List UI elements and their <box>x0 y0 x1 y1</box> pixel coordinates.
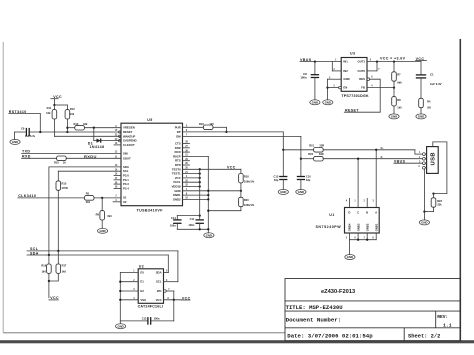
USB pin 2 (DM) <box>423 157 427 160</box>
svg-text:X2: X2 <box>123 200 127 204</box>
resistor R17 <box>48 251 67 282</box>
resistor R4 <box>419 98 431 114</box>
svg-text:IN2: IN2 <box>343 69 348 73</box>
ground (C13) <box>278 189 288 194</box>
resistor R23 <box>431 194 442 212</box>
regulator U3 TPS77301DGK <box>341 52 369 98</box>
wire DM <box>183 136 303 176</box>
EEPROM U2 CAT24FC16LI <box>138 265 164 309</box>
wire GND row to divider <box>183 190 243 192</box>
diode D1 1N4148 <box>88 139 121 150</box>
resistor R16 <box>183 122 228 133</box>
ground (C9) <box>10 132 20 144</box>
USB pin numbers <box>418 152 421 168</box>
ground (R8) <box>389 114 399 119</box>
U5 left pin names <box>123 126 137 204</box>
node TXD <box>22 149 121 153</box>
svg-text:Date: 3/07/2006 02:01:54p: Date: 3/07/2006 02:01:54p <box>287 333 373 340</box>
svg-text:A: A <box>375 210 377 214</box>
svg-text:E0: E0 <box>140 271 144 275</box>
U3 pin numbers <box>329 60 380 88</box>
wire GND1 <box>183 194 210 196</box>
svg-text:SCL: SCL <box>156 280 162 284</box>
U5 short stubs right <box>183 144 190 166</box>
svg-text:Sheet: 2/2: Sheet: 2/2 <box>408 334 440 340</box>
node VCC (U2) <box>182 296 191 300</box>
svg-text:R15: R15 <box>62 181 67 185</box>
svg-text:R8: R8 <box>397 98 401 102</box>
svg-text:C9: C9 <box>21 126 25 130</box>
capacitor C13 <box>274 174 288 189</box>
ground (U2 bus) <box>116 321 126 329</box>
wire OUT2 tie <box>367 62 377 71</box>
svg-text:eZ430-F2013: eZ430-F2013 <box>321 289 355 295</box>
svg-text:GND: GND <box>206 233 212 237</box>
resistor R21 <box>283 143 415 152</box>
wire U3 GND pin <box>326 79 341 100</box>
resistor R8 <box>392 88 402 114</box>
svg-text:GND2: GND2 <box>173 197 181 201</box>
svg-text:USB: USB <box>431 152 437 165</box>
svg-text:R4: R4 <box>427 99 431 103</box>
svg-text:VSS: VSS <box>140 298 146 302</box>
wire SCL to U2 <box>164 251 178 282</box>
svg-text:E2: E2 <box>140 289 144 293</box>
wire WAKEUP net <box>54 135 121 137</box>
capacitor C12 <box>120 317 174 325</box>
USB connector <box>427 147 439 174</box>
svg-text:R18: R18 <box>244 174 249 178</box>
U3 RES bubble and RESET net <box>344 78 380 112</box>
capacitor C1 <box>416 62 442 99</box>
U4 top pin numbers <box>346 200 375 203</box>
resistor R9 <box>96 197 113 229</box>
capacitor C10 <box>297 174 311 189</box>
svg-text:B: B <box>366 210 368 214</box>
svg-text:OUT2: OUT2 <box>358 69 366 73</box>
svg-text:GND3: GND3 <box>356 223 360 231</box>
svg-text:U2: U2 <box>139 265 144 269</box>
svg-text:DP: DP <box>177 130 181 134</box>
U2 left bus wires <box>119 273 138 321</box>
wire <box>39 114 41 132</box>
wire to ground (USB) <box>423 210 433 220</box>
svg-text:10k: 10k <box>70 112 75 116</box>
svg-text:R5: R5 <box>86 192 90 196</box>
svg-text:CLKOUT: CLKOUT <box>123 143 135 147</box>
U4 stub pin D <box>348 198 350 207</box>
title block <box>285 279 460 341</box>
svg-text:3k3: 3k3 <box>107 214 112 218</box>
wire DP to U4 pin A <box>375 149 377 208</box>
svg-text:GND: GND <box>418 115 424 119</box>
svg-text:C11: C11 <box>190 217 195 221</box>
svg-text:C1: C1 <box>430 72 434 76</box>
U3 EN bubble and wire <box>328 86 342 89</box>
svg-text:VBUS: VBUS <box>394 159 406 163</box>
ground (U3) <box>323 100 333 105</box>
U1 GND pin names rotated <box>348 223 379 231</box>
svg-text:VCC: VCC <box>156 298 162 302</box>
VCC label bottom left <box>49 296 59 300</box>
U2 pin names <box>140 271 161 302</box>
U3 pin names <box>343 60 365 90</box>
svg-text:1.1: 1.1 <box>443 323 452 329</box>
wire IN2 tie <box>332 62 341 71</box>
node SDA <box>27 251 168 256</box>
wire TEST1 <box>183 172 201 174</box>
svg-text:VCC: VCC <box>227 166 236 170</box>
svg-text:TXD: TXD <box>22 149 30 153</box>
svg-text:PUR: PUR <box>175 125 181 129</box>
svg-text:GND: GND <box>12 140 18 144</box>
svg-text:C13: C13 <box>274 174 279 178</box>
svg-text:C: C <box>357 210 359 214</box>
capacitor C8 <box>300 62 319 100</box>
svg-text:1k0: 1k0 <box>41 269 46 273</box>
svg-text:GND: GND <box>421 221 427 225</box>
U5 short stubs left <box>113 145 121 202</box>
svg-text:C14: C14 <box>171 216 176 220</box>
wire vertical to bypass caps <box>199 169 201 216</box>
svg-text:GND2: GND2 <box>365 223 369 231</box>
svg-text:100n: 100n <box>170 224 176 228</box>
svg-text:C12: C12 <box>142 317 147 321</box>
wire U2 VCC <box>164 299 182 321</box>
svg-text:100n: 100n <box>188 223 194 227</box>
wire VDD18 pin <box>183 185 201 187</box>
wire SDA from U5 <box>49 167 121 255</box>
svg-text:D: D <box>348 210 350 214</box>
svg-text:RESET: RESET <box>345 108 359 112</box>
svg-text:33k: 33k <box>83 122 88 126</box>
svg-text:R7: R7 <box>397 72 401 76</box>
ground (C8) <box>310 100 320 105</box>
resistor R11 <box>46 105 57 136</box>
U1 pin letters <box>348 210 377 214</box>
resistor R22 <box>301 152 423 161</box>
svg-text:WC: WC <box>157 289 162 293</box>
svg-text:100k/1%: 100k/1% <box>244 179 255 183</box>
wire RESET net <box>30 131 121 133</box>
wire DP <box>183 132 285 177</box>
resistor R13 <box>66 122 121 130</box>
svg-text:1uF,6.3v: 1uF,6.3v <box>25 134 36 138</box>
svg-text:TPS77301DGK: TPS77301DGK <box>341 94 369 98</box>
resistor R5 <box>84 192 121 204</box>
svg-text:RES: RES <box>359 77 365 81</box>
svg-text:1k5: 1k5 <box>209 122 214 126</box>
svg-text:33R: 33R <box>319 143 324 147</box>
U1 bottom stubs and bus <box>346 233 376 241</box>
node VCC (C1) <box>416 57 427 61</box>
USB pin 4 GND <box>423 166 427 211</box>
svg-text:470R: 470R <box>62 186 68 190</box>
resistor R19 <box>41 255 51 298</box>
svg-text:R16: R16 <box>199 122 204 126</box>
U2 WC bubble wire <box>164 290 174 300</box>
svg-text:FB: FB <box>361 86 365 90</box>
svg-text:GND: GND <box>117 324 123 328</box>
title block text <box>286 289 452 340</box>
wire DP step into USB pin 1 <box>415 150 427 156</box>
resistor R10 <box>54 154 121 165</box>
svg-text:GND1: GND1 <box>374 223 378 231</box>
wire VCC output rail <box>367 57 421 63</box>
svg-text:10k: 10k <box>46 111 51 115</box>
svg-text:33k: 33k <box>437 203 442 207</box>
node CLK3410 <box>18 194 85 198</box>
ground (R4) <box>416 114 426 119</box>
IC U1 SN75240PW <box>315 208 379 234</box>
U5 pin bubbles RESET WAKEUP SUSPEND <box>119 131 121 142</box>
wire VCC rail TEST0 <box>183 166 241 171</box>
node RXD <box>22 154 57 158</box>
svg-text:R10: R10 <box>54 161 59 165</box>
svg-text:R9: R9 <box>96 213 100 217</box>
wire cap bottom bus <box>177 228 209 230</box>
svg-text:R17: R17 <box>62 264 67 268</box>
resistor R7 <box>392 62 402 88</box>
svg-text:100n: 100n <box>154 317 160 321</box>
ground (USB) <box>419 220 429 225</box>
svg-text:SOUT: SOUT <box>123 156 131 160</box>
svg-text:DM: DM <box>176 134 181 138</box>
capacitor C9 <box>15 126 36 137</box>
wire SCL from U5 <box>58 171 121 181</box>
svg-text:9k6: 9k6 <box>397 80 402 84</box>
svg-text:IN1: IN1 <box>343 60 348 64</box>
svg-text:EN: EN <box>343 86 347 90</box>
wire RI/CP to GND rail <box>183 156 209 233</box>
svg-text:1uF 6.3V: 1uF 6.3V <box>430 82 442 86</box>
svg-text:R22: R22 <box>308 152 313 156</box>
ground (R9) <box>98 228 108 233</box>
svg-text:R21: R21 <box>309 143 314 147</box>
node VBUS (USB) <box>394 159 427 164</box>
svg-text:RXD: RXD <box>22 154 31 158</box>
svg-text:R19: R19 <box>41 264 46 268</box>
svg-text:R11: R11 <box>47 106 52 110</box>
VCC symbol top left <box>51 95 68 106</box>
wire VCC1 pin <box>183 181 201 183</box>
svg-text:TUSB3410VF: TUSB3410VF <box>137 208 164 212</box>
svg-text:SIN: SIN <box>123 152 128 156</box>
capacitor C14 <box>170 216 200 230</box>
svg-text:GND: GND <box>343 77 349 81</box>
resistor R15 <box>56 181 68 251</box>
svg-text:GND: GND <box>312 100 318 104</box>
svg-text:R23: R23 <box>437 199 442 203</box>
svg-text:VCC = +3.6V: VCC = +3.6V <box>380 57 406 61</box>
svg-text:E1: E1 <box>140 280 144 284</box>
U5 right pin names <box>172 125 182 201</box>
U4 stub pin B <box>366 198 368 207</box>
svg-text:GND4: GND4 <box>348 223 352 231</box>
svg-text:1k0: 1k0 <box>62 269 67 273</box>
U2 pin numbers <box>133 271 170 300</box>
svg-text:Document Number:: Document Number: <box>286 317 342 324</box>
IC U5 TUSB3410VF <box>121 118 183 212</box>
wire VCC pin <box>183 177 201 179</box>
svg-text:SN75240PW: SN75240PW <box>315 225 341 229</box>
svg-text:U1: U1 <box>329 213 334 217</box>
svg-text:33p: 33p <box>306 178 311 182</box>
U5 pin numbers <box>115 126 189 203</box>
svg-text:GND: GND <box>99 229 105 233</box>
wire to D1 <box>93 127 95 141</box>
node VBUS (U3) <box>300 58 341 63</box>
svg-text:GND: GND <box>391 115 397 119</box>
svg-text:TITLE: MSP-EZ430U: TITLE: MSP-EZ430U <box>286 304 343 311</box>
wire USB shield loop <box>432 142 447 195</box>
svg-text:GND: GND <box>325 100 331 104</box>
svg-text:R20: R20 <box>244 198 249 202</box>
wire FB <box>367 86 395 88</box>
svg-text:100k/1%: 100k/1% <box>244 203 255 207</box>
resistor R12 <box>65 105 75 132</box>
svg-text:33R: 33R <box>319 152 324 156</box>
svg-text:GND: GND <box>298 190 304 194</box>
wire SDA to U2 <box>164 255 169 273</box>
svg-text:SDA: SDA <box>156 271 162 275</box>
resistor R18 <box>239 169 255 191</box>
svg-text:P3.4: P3.4 <box>123 186 129 190</box>
svg-text:1k0: 1k0 <box>397 106 402 110</box>
svg-text:REV:: REV: <box>437 314 448 320</box>
ground (C10) <box>296 189 306 194</box>
svg-text:R12: R12 <box>70 107 75 111</box>
svg-text:R13: R13 <box>74 122 79 126</box>
svg-text:RXDU: RXDU <box>84 154 97 159</box>
svg-text:U5: U5 <box>147 118 152 122</box>
svg-text:OUT1: OUT1 <box>358 60 366 64</box>
svg-text:100n: 100n <box>300 75 307 79</box>
svg-text:D-: D- <box>381 157 384 159</box>
node RST3410 <box>9 110 41 132</box>
ground (U5 caps) <box>204 233 214 238</box>
svg-text:GND: GND <box>347 255 353 259</box>
node SCL <box>27 247 178 252</box>
svg-text:1M: 1M <box>427 105 431 109</box>
svg-text:U3: U3 <box>350 52 355 56</box>
ground (U1) <box>345 240 355 260</box>
svg-text:33p: 33p <box>274 178 279 182</box>
svg-text:CAT24FC16LI: CAT24FC16LI <box>138 305 164 309</box>
resistor R20 <box>207 191 255 212</box>
wire GND2 <box>183 198 210 200</box>
svg-text:C10: C10 <box>306 174 311 178</box>
svg-text:GND: GND <box>280 190 286 194</box>
wire DM to U4 pin C <box>357 158 359 208</box>
svg-text:2k2: 2k2 <box>86 200 91 204</box>
capacitor C11 <box>188 216 204 230</box>
svg-text:1N4148: 1N4148 <box>90 145 105 149</box>
